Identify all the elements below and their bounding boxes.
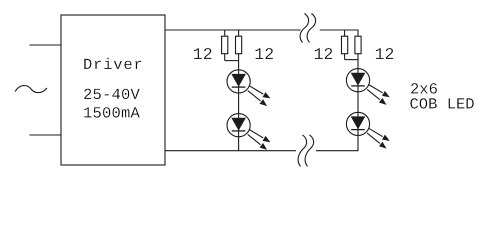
LED D1 (string 1 top) — [227, 70, 270, 106]
resistor 12 (string 1, a) — [222, 30, 228, 61]
wire: string 6 resistor join — [345, 59, 358, 61]
break symbol (top rail continues) — [300, 14, 316, 43]
LED D11 (string 6 top) — [346, 69, 389, 105]
wire: string 1 resistor join — [225, 60, 239, 62]
break symbol (bottom rail continues) — [298, 135, 314, 167]
svg-text:12: 12 — [254, 45, 274, 64]
LED D12 (string 6 bottom) — [346, 112, 389, 148]
resistor 12 (string 6, a) — [342, 30, 348, 60]
wire: bottom rail from driver to break — [165, 150, 296, 152]
wire: bottom rail after break — [316, 150, 359, 152]
svg-text:1500mA: 1500mA — [83, 105, 141, 123]
wire: string 1 vertical — [238, 61, 240, 151]
driver module U1 — [61, 15, 165, 165]
resistor 12 (string 1, b) — [236, 30, 242, 61]
LED D2 (string 1 bottom) — [227, 114, 270, 150]
label: 2x6 COB LED — [410, 81, 475, 114]
svg-text:Driver: Driver — [83, 56, 144, 74]
resistor 12 (string 6, b) — [355, 30, 361, 60]
svg-text:COB LED: COB LED — [410, 96, 475, 114]
svg-text:12: 12 — [193, 45, 213, 64]
svg-text:12: 12 — [375, 45, 395, 64]
svg-text:12: 12 — [314, 45, 334, 64]
wire: string 6 vertical — [357, 60, 359, 151]
wire: AC bottom lead — [30, 134, 62, 136]
wire: top rail after break — [320, 29, 359, 31]
wire: AC top lead — [30, 44, 62, 46]
wire: top rail from driver to break — [165, 29, 301, 31]
AC source (mains ~) — [15, 86, 47, 93]
svg-text:25-40V: 25-40V — [83, 86, 141, 104]
